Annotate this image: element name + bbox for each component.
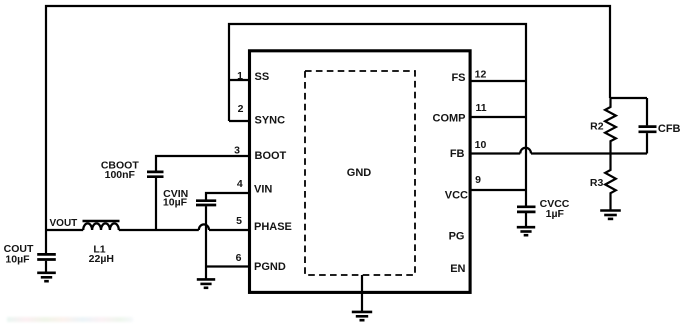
svg-text:FB: FB [450, 148, 465, 160]
svg-text:3: 3 [234, 145, 240, 157]
svg-text:10µF: 10µF [5, 253, 30, 265]
svg-text:12: 12 [475, 68, 487, 80]
svg-text:COMP: COMP [433, 112, 466, 124]
svg-text:PG: PG [449, 231, 465, 243]
svg-text:GND: GND [347, 167, 372, 179]
svg-text:11: 11 [475, 102, 486, 114]
svg-text:6: 6 [236, 252, 242, 264]
svg-text:2: 2 [238, 103, 244, 115]
svg-text:5: 5 [236, 215, 242, 227]
svg-text:VCC: VCC [445, 190, 468, 202]
svg-text:PGND: PGND [254, 261, 286, 273]
svg-text:100nF: 100nF [105, 169, 136, 181]
svg-text:FS: FS [451, 72, 465, 84]
svg-text:EN: EN [450, 263, 465, 275]
svg-text:VOUT: VOUT [50, 218, 78, 229]
svg-text:9: 9 [475, 174, 481, 186]
svg-text:SS: SS [255, 71, 270, 83]
svg-text:22µH: 22µH [89, 253, 114, 265]
svg-text:R2: R2 [590, 121, 604, 133]
svg-text:PHASE: PHASE [254, 221, 292, 233]
svg-text:BOOT: BOOT [255, 150, 287, 162]
svg-text:10µF: 10µF [163, 196, 188, 208]
svg-text:1: 1 [237, 70, 243, 82]
svg-text:1µF: 1µF [546, 208, 565, 220]
svg-text:R3: R3 [590, 177, 604, 189]
svg-text:VIN: VIN [254, 184, 272, 196]
svg-text:CFB: CFB [658, 123, 680, 135]
svg-text:SYNC: SYNC [255, 115, 286, 127]
svg-text:4: 4 [237, 178, 243, 190]
svg-text:10: 10 [475, 139, 487, 151]
